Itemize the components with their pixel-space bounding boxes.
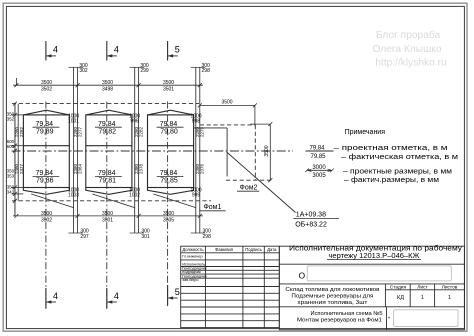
tank T1 elevation labels (33, 121, 60, 184)
dashed outline bottom (12, 200, 211, 202)
svg-text:79,81: 79,81 (99, 177, 117, 184)
svg-text:1002: 1002 (129, 192, 140, 198)
svg-text:79,80: 79,80 (160, 128, 178, 135)
svg-text:297: 297 (80, 234, 89, 240)
rotated dimension 2380/2376 right (195, 163, 205, 174)
dimension 3500/3502 top span1 (41, 80, 52, 92)
signature table job titles (182, 255, 207, 283)
dimension 1000/999 bottom right (190, 187, 201, 198)
dimension 3500/3505 bottom span3 (163, 211, 174, 223)
svg-text:2277: 2277 (78, 126, 83, 137)
stage sheet values (397, 295, 451, 301)
svg-text:79,82: 79,82 (99, 128, 117, 135)
svg-text:79,85: 79,85 (160, 177, 178, 184)
left margin dimension 600/600 (7, 139, 15, 149)
leader diagonal to benchmark note (227, 152, 295, 212)
svg-text:79,89: 79,89 (36, 128, 54, 135)
svg-text:http://klyshko.ru: http://klyshko.ru (375, 58, 446, 69)
svg-text:– проектные размеры, в мм: – проектные размеры, в мм (343, 169, 452, 176)
svg-text:999: 999 (192, 192, 201, 198)
svg-text:3500: 3500 (163, 211, 174, 217)
svg-text:3500: 3500 (41, 80, 52, 86)
svg-text:2376: 2376 (200, 163, 205, 174)
tank T2 outline (86, 110, 132, 194)
svg-text:4: 4 (114, 291, 119, 301)
svg-text:Монтаж резервуаров на Фом1: Монтаж резервуаров на Фом1 (297, 318, 382, 324)
left margin dimension 350/353 (7, 168, 15, 178)
svg-text:Подземные резервуары для: Подземные резервуары для (291, 294, 373, 300)
svg-text:Листов: Листов (442, 285, 458, 291)
svg-text:– проектная отметка, в м: – проектная отметка, в м (334, 145, 448, 152)
svg-text:3501: 3501 (102, 217, 113, 223)
stage sheet header labels (390, 285, 458, 291)
title block signature table grid (181, 246, 280, 327)
top dimension chain line (13, 78, 203, 87)
svg-text:3502: 3502 (41, 87, 52, 93)
svg-text:3501: 3501 (163, 87, 174, 93)
svg-text:Примечания: Примечания (345, 129, 386, 136)
manhole riser pair right of T3 (196, 67, 200, 233)
left vertical dimension chain (12, 102, 24, 216)
svg-text:Фамилия: Фамилия (215, 247, 233, 252)
section mark 5 bottom axis3 (168, 285, 180, 305)
svg-text:Дата: Дата (267, 247, 277, 252)
svg-text:Исполнительная документация по: Исполнительная документация по рабочему (289, 245, 463, 253)
svg-text:О: О (299, 271, 306, 281)
svg-text:4: 4 (53, 45, 58, 55)
svg-text:298: 298 (203, 234, 212, 240)
axis centerline vertical 3 (167, 102, 169, 307)
svg-text:79,85: 79,85 (310, 154, 326, 160)
svg-text:3500: 3500 (41, 211, 52, 217)
svg-text:2282: 2282 (139, 126, 144, 137)
svg-text:996: 996 (130, 118, 139, 124)
dashed outline top (12, 103, 199, 105)
dimension 3500 right vertical rotated (250, 122, 272, 182)
svg-text:Должность: Должность (182, 247, 204, 252)
pit leader diagonal below T2 (92, 194, 134, 208)
dimension 300/297 bottom gap1 (69, 228, 89, 240)
svg-text:3500: 3500 (102, 211, 113, 217)
manhole riser pair between T2 and T3 (135, 67, 139, 233)
manhole riser pair between T1 and T2 (74, 67, 78, 233)
svg-text:1001: 1001 (68, 118, 79, 124)
dimension 300/302 top gap1 (69, 63, 88, 74)
svg-text:600: 600 (7, 144, 15, 149)
label Fom1 (199, 204, 225, 211)
title block main frame (279, 246, 464, 330)
rotated dimension 2280/2277 gap1 (73, 126, 83, 137)
svg-text:Подпись: Подпись (245, 247, 262, 252)
svg-text:3500: 3500 (163, 80, 174, 86)
foundation Fom2 solid edge left (226, 128, 228, 177)
svg-text:зав.бюро: зав.бюро (182, 278, 198, 282)
axis centerline vertical 2 (106, 102, 108, 310)
svg-text:Исполнительная схема №5: Исполнительная схема №5 (311, 311, 383, 317)
axis centerline horizontal row (12, 150, 294, 152)
dimension 300/299 top gap2 (130, 63, 149, 74)
svg-text:3505: 3505 (163, 217, 174, 223)
svg-text:299: 299 (140, 68, 149, 74)
svg-text:чертежу 12013.Р–046–КЖ: чертежу 12013.Р–046–КЖ (329, 253, 421, 260)
dimension 300/301 bottom gap2 (130, 228, 150, 240)
svg-text:4: 4 (53, 291, 58, 301)
svg-text:Блог прораба: Блог прораба (376, 29, 441, 41)
rotated dimension 2280/2282 gap2 (134, 126, 144, 137)
svg-text:– фактическая отметка, в м: – фактическая отметка, в м (341, 154, 458, 161)
svg-text:352: 352 (7, 116, 15, 121)
svg-text:Склад топлива для локомотивов: Склад топлива для локомотивов (285, 287, 379, 293)
svg-text:Стадия: Стадия (390, 285, 407, 291)
svg-text:301: 301 (141, 234, 150, 240)
svg-text:КД: КД (397, 295, 404, 301)
svg-text:*: * (388, 317, 390, 323)
rotated dimension 2380/2377 left margin (15, 163, 25, 174)
benchmark note 1A+09.38 / OB+83.22 (293, 212, 339, 229)
svg-text:343: 343 (7, 189, 15, 194)
notes legend elevation sample (306, 145, 334, 160)
rotated dimension 2280/2279 right (195, 126, 205, 137)
section mark 4 bottom axis2 (107, 288, 119, 308)
title block document name (289, 245, 463, 260)
svg-text:хранения топлива, 3шт: хранения топлива, 3шт (297, 300, 367, 306)
svg-text:353: 353 (7, 173, 15, 178)
svg-text:298: 298 (202, 68, 211, 74)
svg-text:3498: 3498 (102, 87, 113, 93)
section mark 4 top axis1 (46, 41, 58, 61)
pit leader diagonal below T3 (154, 194, 196, 208)
svg-text:302: 302 (79, 68, 88, 74)
bottom dimension chain line (13, 214, 203, 218)
svg-text:– фактич.размеры, в мм: – фактич.размеры, в мм (344, 177, 439, 184)
dimension 3500/3501 bottom span2 (102, 211, 113, 223)
svg-text:3500: 3500 (221, 99, 232, 105)
svg-text:2384: 2384 (78, 163, 83, 174)
censored name box (299, 266, 452, 281)
svg-text:79,86: 79,86 (36, 177, 54, 184)
section mark 5 top axis3 (168, 41, 180, 61)
manhole riser pair left of T1 (15, 104, 18, 216)
svg-text:1: 1 (421, 295, 424, 301)
svg-text:1003: 1003 (68, 192, 79, 198)
dimension 3500/3498 top span2 (102, 80, 113, 92)
section mark 4 top axis2 (107, 41, 119, 61)
signature table header labels (182, 247, 277, 252)
tank T1 outline (23, 110, 69, 194)
rotated dimension 2380/2378 gap2 (134, 163, 144, 174)
rotated dimension 2280/2282 left margin (15, 126, 25, 137)
svg-text:998: 998 (192, 118, 201, 124)
svg-text:4: 4 (114, 45, 119, 55)
foundation Fom2 dashed outline (200, 125, 271, 180)
svg-text:2377: 2377 (19, 163, 24, 174)
svg-text:3005: 3005 (312, 173, 326, 179)
pit leader diagonal below T1 (31, 194, 73, 208)
foundation Fom2 solid edge top (194, 127, 228, 129)
dimension 3500/3501 top span3 (163, 80, 174, 92)
svg-text:1А+09.38: 1А+09.38 (296, 212, 326, 219)
dimension 3500/3502 bottom span1 (41, 211, 52, 223)
section mark 4 bottom axis1 (46, 288, 58, 308)
dimension 1000/1001 top gap1 (68, 113, 79, 124)
svg-text:Фом1: Фом1 (203, 204, 221, 211)
tank T3 elevation labels (157, 121, 184, 184)
left margin dimension 350/343 (7, 184, 15, 194)
svg-text:1: 1 (448, 295, 451, 301)
title block object name (285, 287, 379, 306)
dimension 1000/996 top gap2 (129, 113, 140, 124)
svg-text:Гл.инженер: Гл.инженер (182, 255, 202, 259)
svg-text:2378: 2378 (139, 163, 144, 174)
dimension 300/298 top right (191, 63, 210, 74)
notes legend size sample (305, 165, 334, 179)
label Fom2 (237, 184, 259, 191)
tank T2 elevation labels (95, 121, 122, 184)
dimension 3500 right horizontal (198, 99, 257, 125)
svg-text:Фом2: Фом2 (240, 184, 258, 191)
dimension 1000/1002 bottom gap2 (129, 187, 140, 198)
svg-text:Лист: Лист (417, 285, 428, 291)
svg-text:3500: 3500 (102, 80, 113, 86)
title block scheme name (297, 311, 383, 324)
svg-text:79,84: 79,84 (309, 145, 325, 151)
svg-text:5: 5 (175, 287, 180, 297)
left margin dimension 350/352 (7, 111, 15, 121)
axis centerline vertical 1 (45, 102, 47, 310)
watermark blog stamp (372, 29, 446, 69)
censored firm box (388, 310, 458, 327)
document number underline (327, 259, 421, 261)
tank T3 outline (148, 110, 194, 194)
dimension 300/298 bottom right (191, 228, 211, 240)
svg-text:5: 5 (175, 45, 180, 55)
svg-text:3500: 3500 (264, 145, 270, 156)
rotated dimension 2380/2384 gap1 (73, 163, 83, 174)
dimension 1000/998 top right (190, 113, 201, 124)
dimension 1000/1003 bottom gap1 (68, 187, 79, 198)
svg-text:ОБ+83.22: ОБ+83.22 (295, 221, 327, 228)
svg-text:3502: 3502 (41, 217, 52, 223)
svg-text:Олега Клышко: Олега Клышко (372, 44, 441, 55)
svg-text:2282: 2282 (19, 126, 24, 137)
